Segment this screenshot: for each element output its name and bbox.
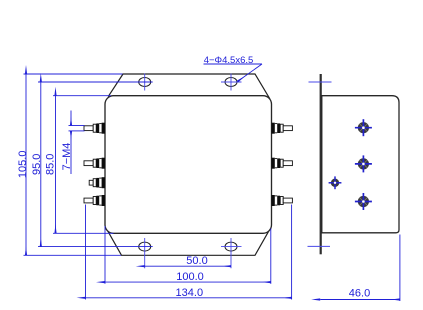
svg-text:85.0: 85.0: [45, 154, 57, 175]
side flange plate edge: [320, 74, 322, 254]
filter body (rounded rectangle): [105, 96, 272, 234]
terminal R3 (bottom right): [272, 195, 293, 206]
side screw symbol S3 (small, ground): [329, 176, 342, 189]
svg-text:95.0: 95.0: [31, 154, 43, 175]
dim 46.0 horizontal (side view): [320, 235, 400, 302]
top flange plate (trapezoid outline): [108, 74, 270, 99]
dim 85.0 vertical line with arrows: [53, 96, 114, 234]
terminal R2: [272, 158, 293, 169]
svg-text:4−Φ4.5x6.5: 4−Φ4.5x6.5: [204, 55, 254, 66]
mounting hole bottom-right: [221, 238, 242, 268]
side centerline tick top: [309, 81, 332, 83]
side screw symbol S4: [355, 193, 372, 210]
svg-text:100.0: 100.0: [176, 271, 204, 283]
mounting hole top-left: [139, 74, 151, 91]
terminal L1 (top left screw terminal): [84, 123, 105, 134]
side body outline: [322, 96, 399, 233]
terminal L4: [84, 195, 105, 206]
dim 134.0 horizontal: [86, 205, 292, 300]
dim 50.0 horizontal: [145, 265, 231, 267]
side screw symbol S1: [355, 119, 372, 136]
svg-text:105.0: 105.0: [17, 151, 29, 179]
svg-text:7−M4: 7−M4: [61, 143, 73, 171]
svg-text:50.0: 50.0: [186, 255, 207, 267]
bottom flange plate (trapezoid outline): [105, 227, 271, 256]
terminal R1 (top right): [272, 123, 293, 134]
terminal L2: [84, 158, 105, 169]
side screw symbol S2: [355, 155, 372, 172]
dim 100.0 horizontal: [105, 226, 271, 284]
mounting hole bottom-left: [139, 238, 151, 268]
svg-text:46.0: 46.0: [349, 287, 370, 299]
side centerline tick bottom: [308, 245, 331, 247]
dim 95.0 vertical line with arrows: [38, 82, 153, 247]
mounting hole top-right: [221, 74, 242, 91]
dim 7-M4 (terminal thread): [69, 111, 85, 175]
dim 105.0 vertical line with arrows: [24, 74, 123, 255]
svg-text:134.0: 134.0: [176, 287, 204, 299]
terminal L3 (short ground stud): [89, 177, 105, 188]
label 4-phi4.5x6.5 with leader: [204, 64, 263, 82]
